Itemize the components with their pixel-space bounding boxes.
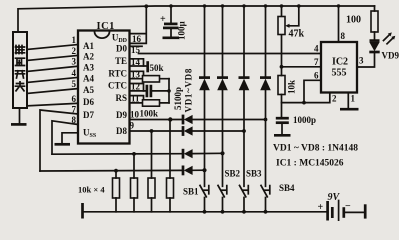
svg-text:D8: D8 xyxy=(116,126,127,136)
svg-text:5100p: 5100p xyxy=(173,87,183,110)
ground below encoder box xyxy=(19,108,21,124)
pin1 ground xyxy=(347,93,349,108)
svg-text:A4: A4 xyxy=(83,74,94,84)
svg-text:10k: 10k xyxy=(287,80,297,94)
wire box to IC1 pin6 xyxy=(27,103,78,106)
svg-text:6: 6 xyxy=(314,71,319,81)
svg-text:−: − xyxy=(345,201,351,212)
svg-text:SB4: SB4 xyxy=(279,183,295,193)
diode VD2 xyxy=(217,78,228,91)
ground terminal bar bottom left xyxy=(81,203,84,219)
encoder glyph 4 xyxy=(16,82,25,91)
pin7 D7 wire left and down xyxy=(40,110,78,171)
node D0 output line to IC2 pin4 xyxy=(139,53,322,55)
wire box to IC1 pin2 xyxy=(27,55,78,60)
wire top supply rail xyxy=(18,6,375,32)
pin3 wire to LED xyxy=(357,53,375,67)
capacitor 100u electrolytic xyxy=(160,4,187,40)
wire button column 1 xyxy=(203,4,206,212)
resistor 100k pin11 RS xyxy=(130,102,170,104)
TE pin14 wire and terminal bar xyxy=(130,65,148,67)
wire 47k tap from rail xyxy=(285,4,300,28)
pin16 tab and riser to rail xyxy=(130,6,147,43)
diode VD on D8 line xyxy=(183,126,193,136)
pin9 D8 line xyxy=(130,130,245,132)
svg-text:D0: D0 xyxy=(116,43,127,53)
svg-text:IC2: IC2 xyxy=(332,57,348,68)
svg-text:VD9: VD9 xyxy=(382,51,399,61)
resistor 10k d xyxy=(167,178,174,198)
svg-text:+: + xyxy=(160,14,166,25)
resistor 100 xyxy=(346,6,378,40)
svg-text:100: 100 xyxy=(346,15,361,26)
pin8 riser xyxy=(338,6,340,42)
bottom common rail xyxy=(83,211,328,213)
svg-text:9: 9 xyxy=(130,121,135,131)
svg-text:10: 10 xyxy=(130,110,140,120)
pin tabs 15-11 xyxy=(130,45,143,47)
encoder glyph 2 xyxy=(16,58,25,65)
svg-text:A3: A3 xyxy=(83,63,94,73)
capacitor 5100p pin12 CTC xyxy=(130,90,170,92)
svg-text:9V: 9V xyxy=(328,192,341,203)
svg-text:2: 2 xyxy=(332,94,337,104)
IC2 555 body xyxy=(321,42,357,93)
wire box to IC1 pin4 xyxy=(27,77,78,82)
wire node 10k-1000p to IC2 pins 2 and 6 xyxy=(282,93,330,103)
svg-text:SB1: SB1 xyxy=(183,187,199,197)
LED VD9 xyxy=(369,32,395,52)
encoder glyph 1 xyxy=(16,46,25,54)
svg-text:IC1: IC1 xyxy=(97,21,115,32)
svg-text:1: 1 xyxy=(72,35,77,45)
diode VD on D9 line xyxy=(183,115,193,125)
svg-text:8: 8 xyxy=(341,31,346,41)
encoder glyph 3 xyxy=(16,71,25,78)
diode VD3 xyxy=(239,78,250,91)
resistor 47k xyxy=(278,4,285,67)
diode VD on SB1 line xyxy=(183,166,193,176)
IC1 MC145026 body xyxy=(78,31,130,144)
encoder switch box xyxy=(13,32,27,108)
battery 9V xyxy=(318,192,366,221)
svg-text:47k: 47k xyxy=(289,29,305,40)
USS ground wire xyxy=(62,133,78,143)
svg-text:D9: D9 xyxy=(116,110,127,120)
svg-text:7: 7 xyxy=(314,57,319,67)
pin7 data line to SB1 column xyxy=(40,169,205,172)
svg-text:6: 6 xyxy=(72,94,77,104)
resistor 10k a xyxy=(113,178,120,198)
svg-text:100k: 100k xyxy=(140,109,159,119)
pushbutton SB3 xyxy=(240,185,249,196)
diode VD4 xyxy=(260,78,271,91)
pin8 wire left and down xyxy=(52,121,78,154)
svg-text:2: 2 xyxy=(72,46,77,56)
svg-text:1: 1 xyxy=(351,94,356,104)
wire box to IC1 pin1 xyxy=(27,45,78,50)
svg-text:10k × 4: 10k × 4 xyxy=(78,185,105,195)
svg-text:A5: A5 xyxy=(83,85,94,95)
svg-text:4: 4 xyxy=(72,68,77,78)
svg-text:A2: A2 xyxy=(83,52,94,62)
diode VD on SB2 line xyxy=(183,149,193,159)
svg-text:50k: 50k xyxy=(150,63,164,73)
svg-text:+: + xyxy=(318,202,324,213)
wire button column 2 xyxy=(221,4,224,212)
wire button column 3 xyxy=(242,4,245,212)
wire node 47k-10k to IC2 pin7 xyxy=(280,65,284,69)
svg-text:4: 4 xyxy=(314,44,319,54)
svg-text:VD1~VD8: VD1~VD8 xyxy=(184,68,194,113)
svg-text:CTC: CTC xyxy=(108,81,127,91)
svg-text:5: 5 xyxy=(72,79,77,89)
resistor 10k b xyxy=(131,178,138,198)
pin8 data line to SB2 column xyxy=(52,152,223,155)
pushbutton SB2 xyxy=(218,185,227,196)
svg-text:3: 3 xyxy=(72,57,77,67)
svg-text:TE: TE xyxy=(115,56,127,66)
wire button column 4 xyxy=(264,4,267,212)
pin10 D9 line xyxy=(130,119,266,121)
resistor 50k pin13 RTC xyxy=(130,78,170,80)
svg-text:A1: A1 xyxy=(83,41,94,51)
svg-text:SB2: SB2 xyxy=(225,169,241,179)
svg-text:100µ: 100µ xyxy=(177,21,187,41)
svg-text:555: 555 xyxy=(332,68,347,79)
svg-text:1000p: 1000p xyxy=(293,115,316,125)
pushbutton SB1 xyxy=(200,185,209,196)
pushbutton SB4 xyxy=(261,185,270,196)
svg-text:RS: RS xyxy=(115,93,127,103)
resistor 10k c xyxy=(148,178,155,198)
diode VD1 xyxy=(199,78,210,91)
svg-text:SB3: SB3 xyxy=(246,169,262,179)
capacitor 1000p xyxy=(274,115,316,135)
svg-text:RTC: RTC xyxy=(108,69,127,79)
svg-text:16: 16 xyxy=(132,34,142,44)
wire box to IC1 pin5 xyxy=(27,89,78,94)
resistor 10k timing xyxy=(278,67,297,117)
svg-text:VD1 ~ VD8 : 1N4148: VD1 ~ VD8 : 1N4148 xyxy=(273,144,358,154)
svg-text:D6: D6 xyxy=(83,97,94,107)
wire box to IC1 pin3 xyxy=(27,66,78,71)
svg-text:3: 3 xyxy=(359,56,364,66)
svg-text:IC1 : MC145026: IC1 : MC145026 xyxy=(276,159,344,169)
svg-text:D7: D7 xyxy=(83,110,94,120)
oscillator node vertical xyxy=(168,79,170,103)
